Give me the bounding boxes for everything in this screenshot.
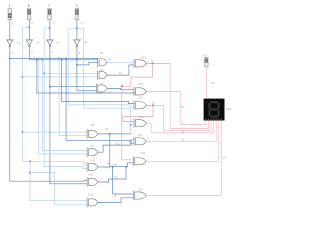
svg-text:U10: U10	[90, 159, 95, 163]
svg-text:C: C	[48, 3, 50, 7]
svg-text:24: 24	[211, 81, 214, 85]
svg-text:18: 18	[113, 194, 116, 198]
svg-text:U7: U7	[100, 81, 104, 85]
svg-text:U9: U9	[90, 144, 94, 148]
svg-text:U11: U11	[88, 172, 93, 176]
svg-text:U17: U17	[138, 133, 143, 137]
svg-text:16: 16	[113, 163, 116, 167]
svg-text:U2: U2	[36, 40, 40, 44]
svg-text:U13: U13	[141, 56, 146, 60]
svg-text:23: 23	[223, 155, 226, 159]
svg-text:U8: U8	[91, 123, 95, 127]
svg-text:20: 20	[181, 129, 184, 133]
svg-text:U19: U19	[140, 151, 145, 155]
svg-text:21: 21	[181, 137, 184, 141]
svg-text:B: B	[28, 3, 30, 7]
svg-text:U1: U1	[17, 40, 21, 44]
svg-text:10: 10	[119, 71, 122, 75]
svg-text:U4: U4	[84, 40, 88, 44]
svg-text:U12: U12	[88, 192, 93, 196]
svg-text:U14: U14	[138, 82, 143, 86]
svg-text:U18: U18	[226, 107, 231, 111]
svg-text:U20: U20	[138, 187, 143, 191]
svg-text:U5: U5	[100, 51, 104, 55]
svg-text:D: D	[76, 3, 78, 7]
svg-text:13: 13	[152, 101, 155, 105]
svg-text:U16: U16	[139, 115, 144, 119]
svg-text:A: A	[9, 3, 11, 7]
svg-text:12: 12	[151, 59, 154, 63]
svg-text:14: 14	[115, 141, 118, 145]
svg-text:U6: U6	[100, 68, 104, 72]
svg-text:U15: U15	[138, 96, 143, 100]
svg-text:U3: U3	[56, 40, 60, 44]
svg-text:15: 15	[107, 162, 110, 166]
svg-text:19: 19	[181, 105, 184, 109]
svg-text:17: 17	[114, 175, 117, 179]
svg-text:11: 11	[106, 127, 109, 131]
